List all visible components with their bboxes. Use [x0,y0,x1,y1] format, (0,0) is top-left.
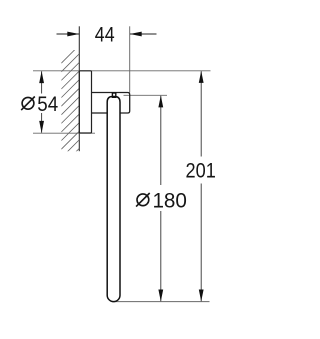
escutcheon (wall rosette) [79,71,91,133]
extension line 44 right [129,26,131,92]
wall hatching [61,45,79,166]
svg-text:54: 54 [37,93,58,116]
extension line rosette bottom (for diameter 54) [33,132,95,134]
ring pivot tab [112,93,115,97]
holder arm underside left segment [92,112,108,114]
diameter symbol for 54 [21,97,35,111]
dimension line 201 upper segment [200,71,202,156]
dimension 44 leader right [130,33,157,35]
arrow diameter 180 bottom (points down) [158,290,163,302]
arrow 44 left (points right) [67,32,79,37]
svg-text:44: 44 [95,23,115,46]
arrow diameter 54 bottom (points down) [39,121,44,133]
svg-text:180: 180 [152,189,187,212]
extension line ring bottom [112,301,210,303]
extension line ring top (for diameter 180) [124,94,168,96]
arrow 201 bottom (points down) [199,290,204,302]
dimension line diameter 180 upper segment [160,96,162,185]
dimension line 201 lower segment [200,184,202,302]
dimension line diameter 54 lower segment [41,113,43,133]
dimension 44 leader left [57,33,80,35]
arrow 201 top (points up) [199,71,204,83]
extension line top (rosette top / 201 top), y=70.8 [33,70,211,72]
holder arm top/right outline [92,93,130,114]
arrow diameter 54 top (points up) [39,71,44,83]
dimension line diameter 54 upper segment [41,71,43,93]
arrow 44 right (points left) [130,32,142,37]
svg-text:201: 201 [186,159,216,182]
dimension line diameter 180 lower segment [160,211,162,301]
towel ring (side view, tube outline) [107,97,120,302]
arrow diameter 180 top (points up) [158,95,163,107]
wall face line [78,26,80,151]
diameter symbol for 180 [136,193,150,207]
